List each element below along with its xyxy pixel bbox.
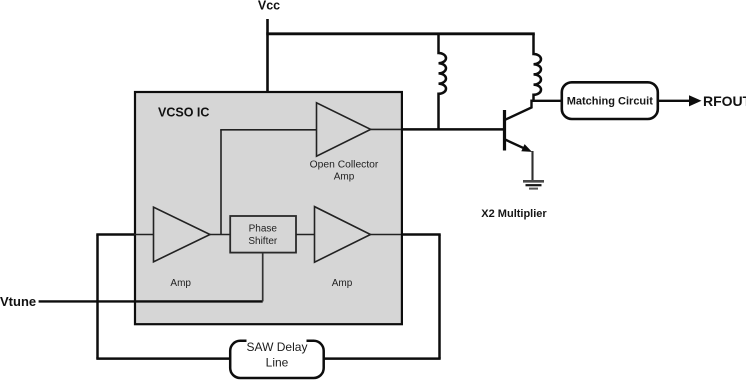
transistor Q1 emitter: [505, 140, 526, 150]
transistor Q1 emitter arrowhead: [521, 144, 532, 152]
svg-text:Amp: Amp: [334, 172, 355, 183]
svg-text:Line: Line: [266, 356, 289, 370]
wire U1 input: [220, 129, 316, 131]
svg-text:Amp: Amp: [332, 278, 353, 289]
wire phase shifter to U3: [296, 234, 315, 236]
svg-text:Open Collector: Open Collector: [310, 160, 379, 171]
svg-text:SAW Delay: SAW Delay: [247, 340, 308, 354]
matching circuit block: [562, 82, 658, 119]
wire Vcc drop to VCSO IC: [266, 19, 269, 91]
RFOUT arrowhead: [689, 95, 702, 106]
label SAW delay line background: [247, 339, 307, 352]
wire matching circuit to RFOUT: [659, 100, 690, 102]
inductor L2: [534, 34, 542, 101]
wire feedback right bottom to SAW delay line: [324, 357, 441, 360]
wire U2 output to phase shifter: [210, 234, 230, 236]
wire Vcc top rail: [266, 32, 535, 35]
svg-text:Shifter: Shifter: [248, 236, 278, 247]
op-amp U1 open collector amp: [317, 103, 371, 156]
wire feedback left vertical: [96, 235, 99, 359]
wire U3 output to feedback right: [371, 234, 403, 236]
transistor Q1 bar: [503, 110, 506, 151]
wire emitter to ground: [531, 151, 533, 180]
transistor Q1 collector: [505, 100, 532, 120]
svg-text:Vcc: Vcc: [258, 0, 280, 13]
phase shifter block: [230, 216, 296, 253]
ground: [523, 180, 544, 183]
svg-text:Vtune: Vtune: [0, 294, 36, 309]
wire feedback left to U2 input: [96, 233, 134, 236]
inductor L1: [439, 34, 447, 130]
svg-text:VCSO IC: VCSO IC: [158, 106, 209, 120]
wire feedback vertical to U1: [220, 130, 222, 235]
op-amp U3 amp: [315, 207, 371, 263]
wire U1 output inside IC: [371, 128, 402, 130]
wire feedback right vertical: [438, 235, 441, 359]
wire feedback left bottom to SAW delay line: [96, 357, 230, 360]
svg-text:RFOUT: RFOUT: [703, 93, 746, 109]
svg-text:Matching Circuit: Matching Circuit: [567, 96, 654, 108]
wire L2 to matching circuit: [532, 100, 561, 102]
wire Vtune input: [39, 300, 263, 302]
svg-text:Phase: Phase: [249, 223, 278, 234]
VCSO IC block: [135, 92, 402, 324]
SAW delay line block: [230, 341, 324, 378]
wire U1 output to transistor base: [401, 128, 503, 131]
svg-text:Amp: Amp: [170, 278, 191, 289]
svg-text:X2 Multiplier: X2 Multiplier: [481, 208, 547, 220]
op-amp U2 amp: [154, 207, 211, 262]
wire phase shifter bottom to Vtune: [262, 253, 264, 302]
